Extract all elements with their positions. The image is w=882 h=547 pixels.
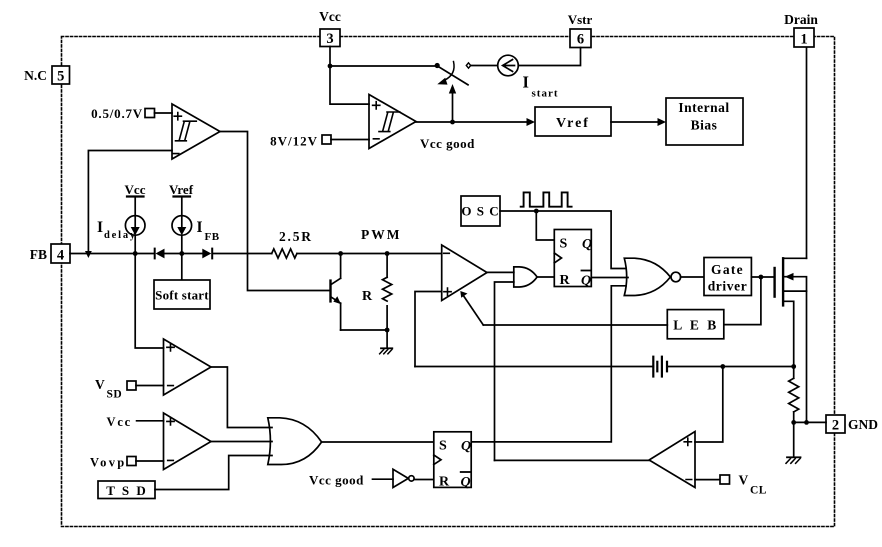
resistor 2.5R	[272, 249, 297, 258]
wire to ground	[386, 330, 388, 348]
svg-text:I: I	[197, 219, 203, 236]
ground (power)	[786, 457, 801, 463]
svg-text:L E B: L E B	[673, 318, 719, 333]
wire TSD to OR2	[155, 456, 272, 490]
svg-text:CL: CL	[750, 485, 767, 497]
terminal VCL	[695, 475, 730, 484]
block Gate driver	[704, 258, 751, 296]
svg-text:4: 4	[57, 248, 64, 264]
svg-text:N.C: N.C	[24, 68, 47, 83]
node R bottom junction	[385, 328, 390, 333]
svg-text:R: R	[362, 289, 373, 304]
wire inverter to latch2 R	[414, 479, 434, 481]
svg-text:R: R	[439, 475, 450, 490]
node Vcc good junction	[450, 120, 455, 125]
svg-text:Q: Q	[581, 274, 591, 289]
wire PWM + input loop	[415, 292, 442, 367]
svg-text:Vref: Vref	[169, 182, 194, 197]
comparator U3 PWM	[442, 245, 487, 301]
pin 6 box (Vstr)	[570, 29, 591, 48]
node OSC junction	[534, 209, 539, 214]
resistor Rsense	[789, 378, 799, 412]
wire CL path up to OR1	[495, 282, 514, 460]
svg-text:S: S	[560, 237, 568, 252]
svg-text:Drain: Drain	[784, 12, 818, 27]
battery (offset) symbol	[653, 357, 667, 377]
svg-text:Gate: Gate	[711, 262, 744, 277]
node PWM rail junction right	[385, 251, 390, 256]
svg-text:Vcc: Vcc	[125, 182, 146, 197]
wire Vcc to startup switch	[330, 65, 436, 67]
block Vref	[535, 107, 611, 136]
diode D2	[202, 249, 212, 259]
wire OSC to latch S	[536, 211, 554, 240]
wire Vcc good to switch control arrow	[449, 84, 456, 122]
wire Rsense to GND node	[793, 412, 795, 423]
svg-text:driver: driver	[708, 279, 748, 294]
svg-text:Q: Q	[461, 475, 471, 490]
svg-text:Vstr: Vstr	[568, 12, 593, 27]
svg-text:start: start	[532, 88, 559, 100]
node sense at source junction	[791, 364, 796, 369]
node GND junction right	[804, 420, 809, 425]
wire gate node down to LEB	[724, 277, 761, 325]
svg-text:Internal: Internal	[678, 100, 729, 115]
wire GND node to pin 2	[794, 421, 826, 423]
wire current sense line	[415, 366, 794, 368]
svg-text:Q: Q	[461, 439, 471, 454]
wire Vcc to U7 +	[137, 420, 164, 422]
wire CL tap to CL comparator	[695, 367, 723, 443]
svg-text:SD: SD	[107, 389, 123, 401]
terminal 0.5/0.7V	[145, 109, 172, 118]
svg-text:PWM: PWM	[361, 227, 402, 242]
comparator U6 CL (current limit)	[649, 432, 695, 488]
svg-text:Q: Q	[582, 237, 592, 252]
pin 2 box (GND)	[826, 415, 845, 434]
resistor R	[383, 254, 392, 331]
wire U3 output to OR1	[487, 271, 514, 273]
pin 3 box (Vcc)	[320, 29, 340, 47]
block LEB	[667, 310, 724, 339]
svg-text:I: I	[97, 219, 103, 236]
svg-text:O S C: O S C	[461, 204, 499, 219]
OR gate OR1	[514, 267, 537, 287]
svg-text:Vcc: Vcc	[319, 9, 341, 24]
svg-text:1: 1	[800, 32, 807, 48]
pin 4 box (FB)	[51, 244, 70, 264]
svg-text:FB: FB	[30, 247, 47, 262]
current source IFB	[172, 197, 192, 254]
svg-text:Vcc good: Vcc good	[309, 473, 364, 488]
current source Idelay	[125, 197, 145, 254]
svg-text:Vcc: Vcc	[107, 415, 133, 429]
svg-text:0.5/0.7V: 0.5/0.7V	[91, 106, 143, 121]
inverter G2	[373, 469, 415, 487]
wire Vcc pin3 down	[330, 47, 369, 105]
wire IFB node to Soft start	[181, 254, 183, 281]
wire GND node down	[793, 422, 795, 457]
wire Vcc good output	[416, 121, 527, 123]
pin 5 box (N.C)	[52, 66, 70, 85]
wire LEB to PWM ramp arrow	[483, 324, 667, 326]
svg-text:Vcc good: Vcc good	[420, 136, 475, 151]
arrowhead into Internal Bias	[658, 118, 667, 126]
wire U7 output to OR2	[211, 441, 272, 443]
wire FB node to U5 +	[135, 254, 163, 349]
node Vcc junction	[328, 64, 333, 69]
svg-text:V: V	[95, 377, 105, 392]
svg-text:3: 3	[326, 31, 333, 47]
svg-text:Bias: Bias	[691, 118, 718, 133]
IC outline dashed border	[62, 37, 835, 527]
pin 1 box (Drain)	[794, 28, 814, 48]
diode D1	[155, 249, 165, 259]
wire Q1 emitter to R bottom	[341, 329, 388, 331]
node gate junction	[759, 275, 764, 280]
svg-text:GND: GND	[848, 417, 878, 432]
arrowhead onto FB line	[85, 251, 92, 258]
latch U4 (PWM SR latch)	[554, 230, 592, 289]
wire OR1 to latch R	[537, 276, 554, 278]
wire U5 output to OR2	[211, 367, 272, 428]
wire U1 inverting input from FB	[88, 151, 172, 252]
wire drain to pin 1	[806, 48, 808, 259]
comparator U2 UVLO (Vcc good)	[369, 95, 416, 149]
OR gate OR2 (protection)	[268, 418, 322, 465]
wire latch Qbar to NOR	[591, 277, 628, 279]
svg-text:R: R	[560, 273, 571, 288]
startup switch SW1	[435, 62, 471, 85]
block TSD	[98, 481, 155, 499]
LEB ramp arrow into U3	[460, 291, 483, 325]
wire Vref to Internal Bias	[611, 121, 658, 123]
svg-text:2: 2	[832, 418, 839, 434]
label IFB	[197, 219, 220, 243]
svg-text:V: V	[739, 473, 749, 488]
wire latch2 Q up to NOR	[471, 286, 626, 442]
node sense tap junction	[720, 364, 725, 369]
svg-text:Soft start: Soft start	[155, 288, 209, 303]
comparator U1 burst/feedback (0.5/0.7V)	[172, 104, 220, 159]
wire switch to Istart source	[471, 65, 498, 67]
svg-text:Vovp: Vovp	[90, 456, 127, 470]
wire FB rail	[70, 253, 442, 255]
block Internal Bias	[666, 98, 743, 145]
wire U1 output down to Q1 base	[220, 132, 330, 291]
node IFB junction	[179, 251, 184, 256]
label VSD	[95, 377, 122, 401]
wire OR2 to latch2 S	[322, 441, 434, 443]
svg-text:S: S	[439, 439, 447, 454]
latch U8 (protection SR latch)	[434, 432, 471, 490]
block Soft start	[154, 280, 210, 309]
wire gate driver to MOSFET gate	[751, 276, 774, 278]
label VCL	[739, 473, 767, 497]
NOR gate G1	[624, 258, 680, 295]
wire MOSFET body to GND node	[806, 291, 808, 422]
node PWM rail junction left	[338, 251, 343, 256]
label Istart	[523, 73, 559, 100]
wire CL output	[495, 459, 650, 461]
MOSFET M1	[775, 258, 807, 378]
svg-text:6: 6	[577, 32, 584, 48]
terminal VSD	[127, 381, 164, 390]
node GND junction left	[791, 420, 796, 425]
comparator U7 OVP (Vcc/Vovp)	[164, 413, 212, 470]
node Idelay junction	[133, 251, 138, 256]
svg-text:2.5R: 2.5R	[279, 229, 313, 244]
oscillator OSC box	[461, 196, 500, 226]
svg-text:T S D: T S D	[106, 483, 148, 498]
svg-text:I: I	[523, 73, 529, 92]
wire OSC output	[500, 211, 626, 269]
svg-text:FB: FB	[205, 231, 220, 243]
svg-text:Vref: Vref	[556, 116, 590, 131]
clock waveform	[521, 192, 572, 206]
arrowhead into Vref	[527, 118, 536, 126]
svg-text:delay: delay	[104, 230, 137, 241]
terminal 8V/12V	[322, 135, 369, 144]
wire NOR to gate driver	[681, 276, 704, 278]
wire Istart to Vstr pin6	[518, 48, 580, 66]
svg-text:8V/12V: 8V/12V	[270, 134, 318, 149]
transistor Q1	[331, 254, 341, 331]
comparator U5 shutdown (VSD)	[164, 339, 212, 395]
svg-text:5: 5	[57, 69, 64, 85]
terminal Vovp	[127, 457, 164, 466]
label Idelay	[97, 219, 137, 241]
current source Istart	[498, 55, 519, 76]
ground (PWM divider)	[380, 348, 393, 354]
